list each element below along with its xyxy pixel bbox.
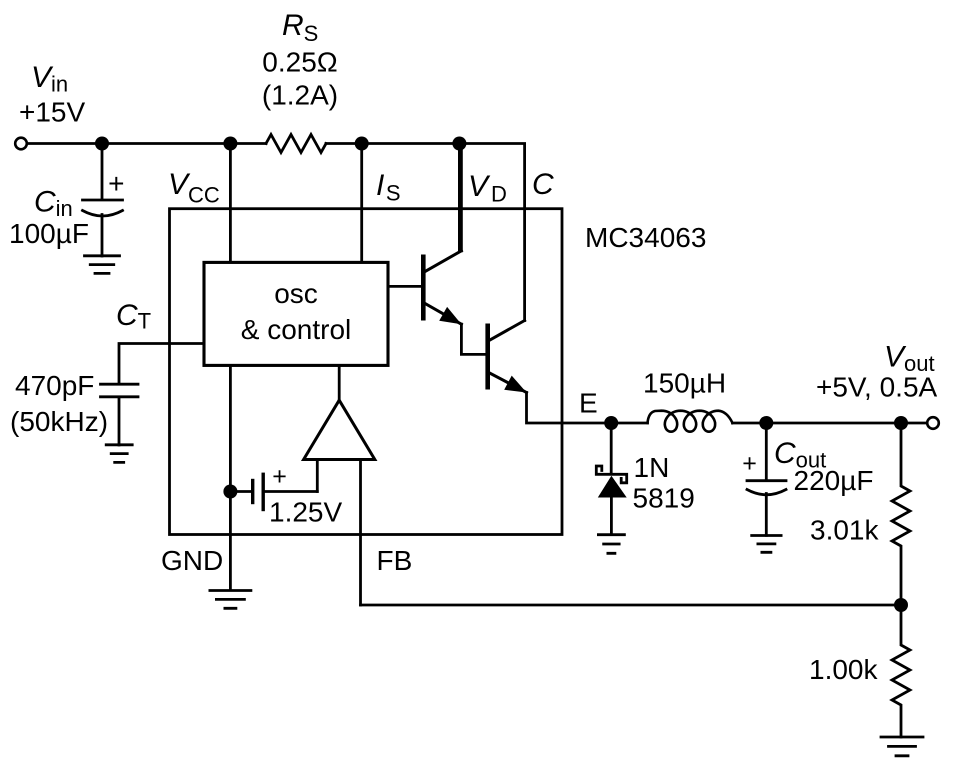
resistor RS: [266, 135, 326, 153]
svg-text:+: +: [108, 168, 124, 199]
wire to output terminal: [901, 422, 927, 425]
svg-text:470pF: 470pF: [15, 370, 94, 401]
wire battery to input: [265, 490, 317, 493]
wire Cout drop: [765, 423, 768, 480]
wire comparator apex: [338, 366, 341, 401]
capacitor CT: [101, 384, 139, 445]
node FB junction: [894, 598, 908, 612]
svg-text:C: C: [532, 168, 554, 201]
wire Q1 collector up: [460, 144, 463, 251]
wire FB horizontal: [361, 604, 902, 607]
wire diode anode: [610, 423, 613, 473]
wire Vd pin: [458, 144, 461, 252]
svg-text:GND: GND: [161, 545, 223, 576]
svg-text:+: +: [742, 450, 757, 478]
ground output: [881, 737, 923, 756]
node Cout: [759, 416, 773, 430]
svg-text:+: +: [272, 463, 287, 491]
node N4: [452, 137, 466, 151]
svg-text:1N: 1N: [634, 452, 670, 483]
svg-text:+5V, 0.5A: +5V, 0.5A: [816, 372, 938, 403]
svg-text:E: E: [579, 388, 598, 419]
wire E to inductor: [611, 422, 648, 425]
diode 1N5819 schottky: [596, 466, 626, 483]
capacitor Cin: [83, 200, 123, 256]
wire Is pin: [360, 144, 363, 263]
svg-text:(1.2A): (1.2A): [262, 80, 338, 111]
wire Cin drop: [101, 144, 104, 200]
wire to Vout node: [766, 422, 901, 425]
node Vout: [894, 416, 908, 430]
svg-text:3.01k: 3.01k: [810, 515, 879, 546]
svg-text:& control: & control: [241, 314, 352, 345]
resistor 3.01k: [892, 423, 910, 605]
wire inverting input stub: [316, 460, 319, 492]
osc & control box: [204, 262, 388, 365]
svg-text:FB: FB: [377, 545, 413, 576]
node N3: [355, 137, 369, 151]
wire inductor to Cout node: [733, 422, 767, 425]
input terminal: [15, 138, 27, 150]
wire Vcc pin: [229, 144, 232, 263]
wire top rail left: [28, 142, 267, 145]
wire Q2 emitter to E: [527, 393, 612, 424]
node N1: [95, 137, 109, 151]
output terminal: [927, 417, 939, 429]
svg-text:(50kHz): (50kHz): [10, 406, 108, 437]
node battery: [223, 485, 237, 499]
inductor 150uH: [648, 411, 733, 432]
transistor Q1: [389, 285, 421, 288]
ground GND: [210, 591, 251, 609]
ground Cin: [85, 256, 120, 274]
battery 1.25V: [251, 481, 254, 503]
transistor Q2: [485, 324, 490, 390]
wire GND pin: [229, 366, 232, 591]
op-amp comparator triangle: [304, 400, 375, 459]
svg-text:MC34063: MC34063: [585, 222, 706, 253]
svg-text:1.00k: 1.00k: [809, 654, 878, 685]
wire CT horizontal: [119, 344, 204, 384]
IC box MC34063: [170, 209, 563, 535]
capacitor Cout: [747, 481, 786, 536]
svg-text:1.25V: 1.25V: [269, 497, 342, 528]
svg-text:100µF: 100µF: [9, 218, 89, 249]
wire top rail right: [326, 144, 525, 321]
svg-text:+15V: +15V: [19, 97, 85, 128]
svg-text:5819: 5819: [633, 483, 695, 514]
svg-text:0.25Ω: 0.25Ω: [262, 47, 337, 78]
wire FB pin: [359, 460, 362, 606]
ground diode: [598, 535, 624, 554]
node N2: [223, 137, 237, 151]
wire Q1 emitter to Q2 base: [461, 324, 485, 354]
svg-text:220µF: 220µF: [794, 465, 874, 496]
svg-text:150µH: 150µH: [643, 368, 726, 399]
resistor 1.00k: [892, 605, 910, 737]
wire battery left: [230, 490, 251, 493]
ground CT: [106, 445, 132, 463]
node E: [604, 416, 618, 430]
ground Cout: [752, 536, 781, 553]
svg-text:osc: osc: [274, 278, 318, 309]
